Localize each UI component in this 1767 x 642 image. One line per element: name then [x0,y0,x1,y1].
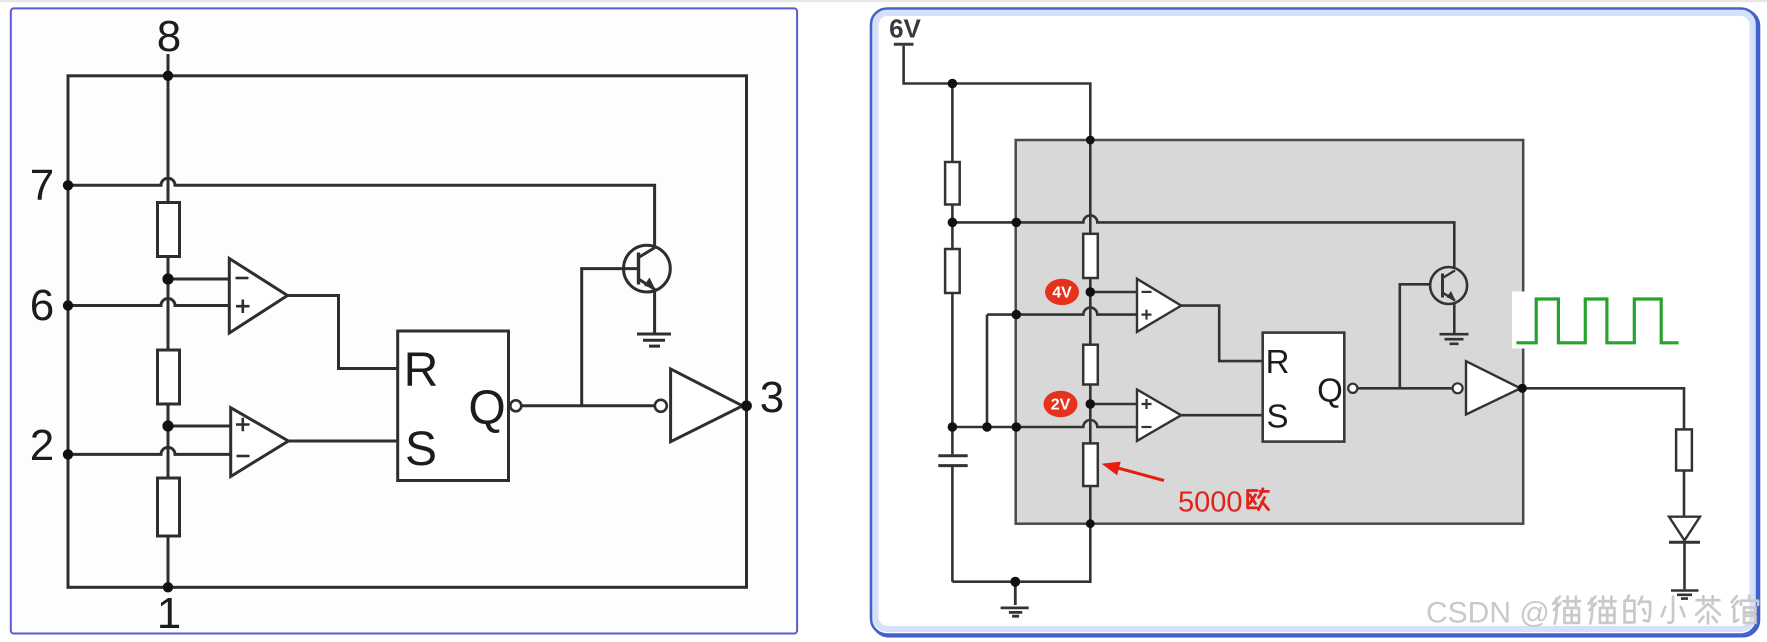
wire: lower comparator output to S input [288,440,397,443]
node: 6V rail junction [948,79,958,89]
wire: Q to inverter (right) [1357,387,1452,390]
internal divider resistor r1 [1083,234,1098,278]
ground (transistor right) [1440,334,1469,344]
svg-text:8: 8 [157,12,181,61]
wire: R2 down to trigger node [951,293,954,427]
node: pin 3 dot [741,400,752,411]
capacitor C1 [938,427,967,582]
node: pin 1 entry [1086,519,1095,528]
node: connector tee [982,422,992,432]
op-amp comparator upper [229,259,287,334]
label 4V oval [1045,279,1079,305]
wire: r2 to r3 [1089,385,1092,444]
wire: tap to upper comparator minus [168,278,229,281]
wire: tap to lower comparator plus [168,425,231,428]
svg-text:Q: Q [1317,372,1343,409]
watermark glyph xiao [1662,597,1685,623]
op-amp comparator lower [231,408,289,477]
wire: between R1 and R2 [951,205,954,250]
wire: emitter to ground [653,292,656,334]
node: divider tap upper [162,273,173,284]
node: Ra-Rb junction [948,218,958,228]
flip-flop box (right) [1263,333,1345,442]
flip-flop U1 box [398,331,509,481]
wire: pin 7 line with jump over divider [68,178,655,245]
transistor Q1 [624,245,671,292]
internal divider resistor r2 [1083,345,1098,385]
svg-text:6V: 6V [889,14,921,44]
node: pin 6 dot [63,300,73,310]
white notch for waveform [1512,292,1527,349]
node: pin 2 dot [63,449,73,459]
watermark glyph de [1625,596,1651,623]
wire: ground rail [952,486,1090,582]
wire: left chain top [951,84,954,163]
wire: resistor to LED [1683,471,1686,517]
node: pin 8 entry [1086,136,1095,145]
svg-text:S: S [405,423,437,476]
wire: branch to transistor base (right) [1400,284,1431,388]
wire: trigger pin 2 line [952,420,1137,427]
left panel frame [11,8,797,633]
wire: upper comparator to R [1181,306,1263,362]
resistor Rc (bottom) [158,478,180,536]
node: 2V tap [1086,399,1096,409]
svg-text:R: R [404,344,439,397]
ground (transistor emitter) [637,334,671,346]
wire: output pin 3 to load [1522,388,1684,429]
annotation arrow 5000 ohm [1102,462,1165,481]
wire: Q to inverter [522,404,655,407]
555 chip body (gray box) [1016,140,1523,524]
op-amp comparator upper (right) [1137,279,1181,332]
inverter U2 output buffer [655,369,743,442]
right panel frame [871,9,1759,637]
wire: threshold pin 6 line [987,308,1137,315]
node: trigger junction left [948,422,958,432]
resistor Rb (middle) [158,350,180,404]
internal divider resistor r3 5000 ohm [1083,443,1098,486]
svg-text:CSDN @: CSDN @ [1426,597,1550,630]
transistor Q1 (right) [1430,267,1467,304]
node: pin 3 output [1518,384,1527,393]
inverter output buffer (right) [1453,361,1521,414]
resistor R1 (left chain top) [945,162,960,205]
svg-text:7: 7 [30,161,54,210]
resistor Ra (top) [158,203,180,257]
node: 4V tap [1086,287,1096,297]
svg-text:5000: 5000 [1178,487,1243,519]
watermark glyph cha [1696,596,1720,623]
svg-text:4V: 4V [1052,285,1072,302]
node: pin 2 entry [1012,422,1022,432]
label 2V oval [1044,391,1078,417]
wire: branch to transistor base [582,269,638,406]
wire: 6V to Vcc rail and pin 8 [904,46,1091,234]
svg-text:3: 3 [760,373,784,422]
wire: discharge line pin 7 to transistor [952,215,1454,268]
node: pin 6 entry [1012,310,1022,320]
node: ground junction [1010,577,1020,587]
watermark glyph mao1 [1553,597,1580,624]
svg-text:6: 6 [30,281,54,330]
svg-text:Q: Q [468,382,505,435]
svg-text:1: 1 [157,589,181,638]
node: Q output bubble [510,400,521,411]
node: pin 1 junction [163,582,173,592]
wire: lower comparator to S [1181,414,1263,417]
annotation glyph ou (ohm) [1248,489,1269,510]
waveform square wave [1516,299,1678,343]
node: divider tap lower [162,420,173,431]
node: pin 7 entry [1012,218,1022,228]
wire: pin 2 line with jump [68,447,231,454]
ground (main) [1001,582,1029,617]
op-amp comparator lower (right) [1137,390,1181,441]
wire: pin6-pin2 connector vertical [986,315,989,427]
ground (LED) [1671,591,1699,599]
watermark glyph guan [1732,596,1758,623]
top edge strip [0,0,1767,2]
wire: r1 to r2 [1089,278,1092,345]
wire: pin 6 line with jump [68,299,230,306]
resistor R2 (left chain lower) [945,249,960,293]
node: pin 8 junction [163,71,173,81]
diode LED D1 [1669,517,1700,543]
svg-text:R: R [1266,343,1290,380]
wire: 4V tap to comparator [1090,291,1137,294]
wire: 2V tap to comparator [1090,403,1137,406]
6V supply [889,14,921,45]
wire: pin 8 stub + divider chain [167,54,170,587]
svg-text:2V: 2V [1051,397,1071,414]
watermark glyph mao2 [1589,597,1616,624]
wire: upper comparator output to R input [288,296,398,369]
svg-text:2: 2 [30,421,54,470]
wire: emitter to ground (right) [1453,303,1456,334]
IC outer box [68,76,747,588]
node: pin 7 dot [63,180,73,190]
wire: LED to ground [1683,542,1686,589]
node: Q bubble (right) [1348,384,1357,393]
svg-text:S: S [1266,398,1288,435]
resistor R load [1676,429,1692,470]
